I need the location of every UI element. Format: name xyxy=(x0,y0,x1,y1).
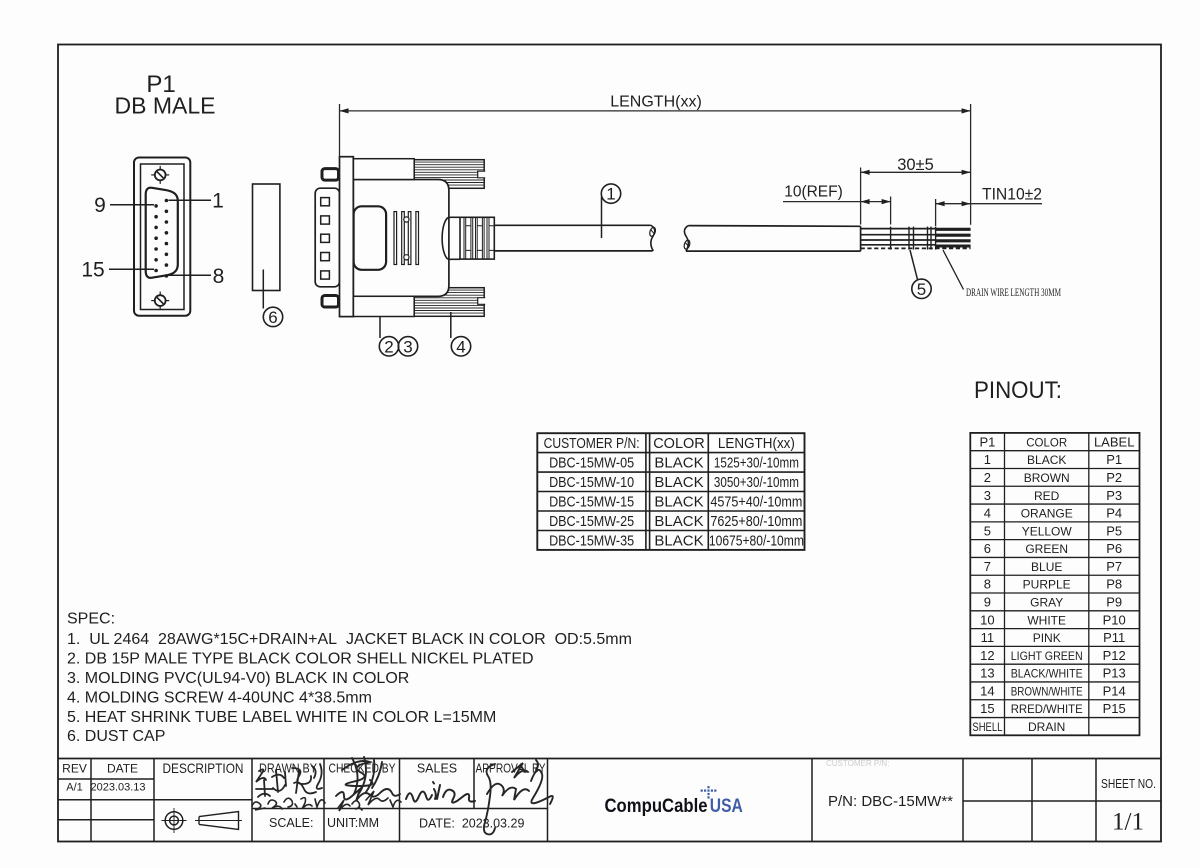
signature drawn-by xyxy=(256,764,322,797)
cable segment 2 (jacket) xyxy=(686,226,861,252)
svg-text:10675+80/-10mm: 10675+80/-10mm xyxy=(709,532,804,549)
svg-text:7: 7 xyxy=(984,559,991,574)
svg-text:DBC-15MW-35: DBC-15MW-35 xyxy=(549,532,634,549)
svg-text:2: 2 xyxy=(384,337,393,356)
connector P1 face view : outer shell xyxy=(134,158,190,316)
callout 2,3 leader xyxy=(379,317,381,338)
strain relief bulge xyxy=(442,217,449,259)
logo dot cross xyxy=(701,786,717,798)
svg-text:8: 8 xyxy=(213,265,225,288)
svg-text:1: 1 xyxy=(606,185,615,204)
svg-text:P1: P1 xyxy=(1106,452,1122,467)
svg-text:4: 4 xyxy=(984,506,991,521)
svg-text:3: 3 xyxy=(403,337,412,356)
svg-text:11: 11 xyxy=(981,630,995,645)
svg-text:10: 10 xyxy=(980,612,994,627)
screw hole top xyxy=(151,166,169,184)
molding screw ridge top (hatched) xyxy=(414,160,486,189)
molding step band top xyxy=(353,159,414,180)
svg-text:PINK: PINK xyxy=(1033,631,1061,645)
svg-text:6: 6 xyxy=(984,541,991,556)
svg-text:15: 15 xyxy=(980,701,994,716)
svg-text:P9: P9 xyxy=(1106,595,1122,610)
svg-text:ORANGE: ORANGE xyxy=(1021,507,1073,521)
svg-text:2. DB 15P MALE TYPE BLACK COLO: 2. DB 15P MALE TYPE BLACK COLOR SHELL NI… xyxy=(67,650,534,667)
svg-text:DBC-15MW-05: DBC-15MW-05 xyxy=(549,455,634,472)
svg-text:SPEC:: SPEC: xyxy=(67,611,115,628)
svg-text:P6: P6 xyxy=(1106,541,1122,556)
svg-text:P15: P15 xyxy=(1103,701,1126,716)
svg-text:5: 5 xyxy=(984,523,991,538)
callout 1 leader xyxy=(601,197,603,239)
customer part number table xyxy=(537,433,804,550)
svg-text:BLACK: BLACK xyxy=(1027,453,1066,467)
svg-text:4. MOLDING SCREW 4-40UNC 4*38.: 4. MOLDING SCREW 4-40UNC 4*38.5mm xyxy=(67,689,372,706)
connector flange plate xyxy=(340,157,354,317)
callout 4 leader xyxy=(450,312,452,338)
callout circle 4 xyxy=(451,337,470,356)
svg-text:P3: P3 xyxy=(1106,488,1122,503)
grip ribs xyxy=(394,212,419,265)
svg-text:DRAWN BY: DRAWN BY xyxy=(259,762,318,776)
svg-text:8: 8 xyxy=(984,577,991,592)
svg-text:USA: USA xyxy=(710,795,743,817)
svg-text:SHEET NO.: SHEET NO. xyxy=(1101,777,1156,791)
svg-text:UNIT:MM: UNIT:MM xyxy=(327,816,379,830)
D-sub shell (side) xyxy=(315,188,339,287)
svg-text:P14: P14 xyxy=(1103,684,1126,699)
svg-text:P13: P13 xyxy=(1103,666,1126,681)
svg-text:PINOUT:: PINOUT: xyxy=(974,377,1062,404)
cable break left xyxy=(651,225,655,251)
svg-text:RRED/WHITE: RRED/WHITE xyxy=(1011,702,1083,716)
svg-text:P7: P7 xyxy=(1106,559,1122,574)
molding screw ridge bottom (hatched) xyxy=(414,288,486,317)
pin label 8 xyxy=(169,274,212,276)
svg-text:5. HEAT SHRINK TUBE LABEL WHIT: 5. HEAT SHRINK TUBE LABEL WHITE IN COLOR… xyxy=(67,709,496,726)
svg-text:3. MOLDING PVC(UL94-V0) BLACK: 3. MOLDING PVC(UL94-V0) BLACK IN COLOR xyxy=(67,670,409,687)
pin label 15 xyxy=(109,268,154,270)
svg-text:P4: P4 xyxy=(1106,506,1122,521)
svg-text:SCALE:: SCALE: xyxy=(269,816,313,830)
svg-text:6. DUST CAP: 6. DUST CAP xyxy=(67,728,165,745)
title block grid xyxy=(58,759,1161,842)
pin label 9 xyxy=(110,204,154,206)
svg-text:1. UL 2464 28AWG*15C+DRAIN+A: 1. UL 2464 28AWG*15C+DRAIN+AL JACKET BLA… xyxy=(67,631,632,648)
svg-text:P/N: DBC-15MW**: P/N: DBC-15MW** xyxy=(828,793,953,810)
svg-text:BROWN: BROWN xyxy=(1024,471,1070,485)
callout circle 1 xyxy=(601,184,620,203)
svg-text:12: 12 xyxy=(980,648,994,663)
screw hole bottom xyxy=(151,292,169,310)
cable segment 1 xyxy=(494,225,652,251)
strain relief ribbed block xyxy=(460,217,494,259)
svg-text:BLACK: BLACK xyxy=(654,494,703,511)
tinned wire ends xyxy=(936,229,971,246)
dimension 10(REF) xyxy=(783,184,891,225)
svg-text:3050+30/-10mm: 3050+30/-10mm xyxy=(714,474,799,491)
callout circle 5 xyxy=(912,279,931,298)
svg-text:4575+40/-10mm: 4575+40/-10mm xyxy=(710,494,802,511)
svg-text:DATE: DATE xyxy=(107,762,138,776)
callout circle 2 xyxy=(379,337,398,356)
svg-text:LENGTH(xx): LENGTH(xx) xyxy=(610,94,702,111)
pins 9-15 (left column) xyxy=(154,204,158,272)
connector P1 face view : inner flange xyxy=(141,164,185,310)
svg-text:LIGHT GREEN: LIGHT GREEN xyxy=(1011,649,1083,663)
dimension 30±5 xyxy=(861,156,971,225)
svg-text:DESCRIPTION: DESCRIPTION xyxy=(163,760,244,776)
pins 1-8 (right column) xyxy=(165,199,169,278)
svg-text:LENGTH(xx): LENGTH(xx) xyxy=(718,436,795,452)
svg-text:P10: P10 xyxy=(1103,612,1126,627)
third angle projection symbol xyxy=(162,808,243,833)
callout 5 leader xyxy=(910,250,918,280)
svg-text:A/1: A/1 xyxy=(66,782,83,794)
svg-text:COLOR: COLOR xyxy=(1026,437,1067,449)
svg-text:10(REF): 10(REF) xyxy=(784,184,843,201)
svg-text:BROWN/WHITE: BROWN/WHITE xyxy=(1011,685,1083,699)
svg-text:DB MALE: DB MALE xyxy=(115,93,216,119)
D-shell insert (face) xyxy=(146,188,178,278)
svg-text:DATE: 2023.03.29: DATE: 2023.03.29 xyxy=(419,817,524,831)
callout circle 3 xyxy=(398,337,417,356)
callout 6 leader xyxy=(262,270,264,309)
svg-text:GREEN: GREEN xyxy=(1025,542,1068,556)
svg-text:P5: P5 xyxy=(1106,523,1122,538)
svg-text:CUSTOMER P/N:: CUSTOMER P/N: xyxy=(826,759,889,768)
signature checked-by xyxy=(336,757,400,801)
svg-text:P2: P2 xyxy=(1106,470,1122,485)
svg-text:2: 2 xyxy=(984,470,991,485)
svg-text:DRAIN WIRE LENGTH 30MM: DRAIN WIRE LENGTH 30MM xyxy=(966,287,1061,299)
callout circle 6 xyxy=(263,307,282,326)
svg-text:BLACK: BLACK xyxy=(654,474,703,491)
dimension TIN10±2 xyxy=(936,186,1042,227)
svg-text:P12: P12 xyxy=(1103,648,1126,663)
svg-text:SALES: SALES xyxy=(417,762,457,776)
svg-text:1: 1 xyxy=(212,190,224,213)
dimension LENGTH(xx) xyxy=(340,94,971,225)
svg-text:SHELL: SHELL xyxy=(972,720,1002,734)
svg-text:5: 5 xyxy=(917,280,926,299)
svg-text:13: 13 xyxy=(980,666,994,681)
svg-text:DBC-15MW-15: DBC-15MW-15 xyxy=(549,494,634,511)
svg-text:4: 4 xyxy=(456,337,465,356)
svg-text:BLACK: BLACK xyxy=(654,513,703,530)
signature sales (milan) xyxy=(406,782,475,803)
svg-text:PURPLE: PURPLE xyxy=(1023,578,1071,592)
molded body xyxy=(353,180,449,297)
svg-text:CompuCable: CompuCable xyxy=(605,795,708,817)
svg-text:9: 9 xyxy=(984,595,991,610)
svg-text:BLACK/WHITE: BLACK/WHITE xyxy=(1011,667,1083,681)
svg-text:WHITE: WHITE xyxy=(1027,613,1066,627)
svg-text:GRAY: GRAY xyxy=(1030,596,1063,610)
svg-text:P11: P11 xyxy=(1103,630,1125,645)
svg-text:2023.03.13: 2023.03.13 xyxy=(90,782,145,794)
svg-text:BLUE: BLUE xyxy=(1031,560,1062,574)
mounting screw top xyxy=(322,169,339,181)
svg-text:BLACK: BLACK xyxy=(654,532,703,549)
signature approval-by xyxy=(484,760,553,834)
svg-text:RED: RED xyxy=(1034,489,1060,503)
svg-text:1: 1 xyxy=(984,452,991,467)
pinout table xyxy=(970,433,1139,735)
svg-text:DRAIN: DRAIN xyxy=(1028,720,1065,734)
svg-text:1525+30/-10mm: 1525+30/-10mm xyxy=(714,455,799,472)
pin label 1 xyxy=(169,199,212,201)
molding step band bottom xyxy=(353,296,414,316)
svg-text:TIN10±2: TIN10±2 xyxy=(982,186,1042,204)
svg-text:14: 14 xyxy=(980,684,994,699)
svg-text:DBC-15MW-25: DBC-15MW-25 xyxy=(549,513,634,530)
svg-text:3: 3 xyxy=(984,488,991,503)
grip recess on molding xyxy=(354,206,387,269)
svg-text:P1: P1 xyxy=(979,434,995,449)
svg-text:30±5: 30±5 xyxy=(897,156,934,174)
dust cap (item 6) xyxy=(253,184,280,291)
svg-text:15: 15 xyxy=(81,259,104,282)
svg-text:REV: REV xyxy=(62,762,87,776)
svg-text:1/1: 1/1 xyxy=(1112,809,1144,836)
drain wire note leader xyxy=(943,250,964,290)
svg-text:YELLOW: YELLOW xyxy=(1022,524,1073,538)
stripped wires xyxy=(861,229,936,245)
mounting screw bottom xyxy=(322,296,339,308)
drain wire (dashed) xyxy=(861,247,971,249)
svg-text:COLOR: COLOR xyxy=(653,436,705,452)
heat shrink tube marks xyxy=(891,227,936,250)
svg-text:9: 9 xyxy=(94,194,106,217)
svg-text:P8: P8 xyxy=(1106,577,1122,592)
svg-text:7625+80/-10mm: 7625+80/-10mm xyxy=(710,513,802,530)
svg-text:DBC-15MW-10: DBC-15MW-10 xyxy=(549,474,634,491)
cable break right xyxy=(684,226,688,252)
svg-text:LABEL: LABEL xyxy=(1094,434,1134,449)
male pins (side view) xyxy=(321,198,330,280)
svg-text:6: 6 xyxy=(268,308,277,327)
svg-text:CUSTOMER P/N:: CUSTOMER P/N: xyxy=(544,436,640,452)
svg-text:BLACK: BLACK xyxy=(654,455,703,472)
